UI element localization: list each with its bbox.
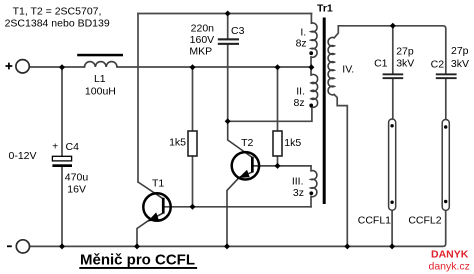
svg-text:16V: 16V [67,184,86,196]
wire: C1 bottom lead to CCFL1 [392,79,394,119]
svg-text:0-12V: 0-12V [9,150,37,162]
node: center tap [308,64,314,70]
svg-text:L1: L1 [94,73,106,85]
svg-text:3z: 3z [293,187,304,199]
wire: R1 top lead [192,67,194,131]
wire: winding I top lead [310,14,312,24]
node: top rail / C3 [225,11,231,17]
lamp CCFL1 [358,119,396,226]
svg-text:C3: C3 [231,25,245,37]
wire: R1 bottom lead [192,156,194,207]
svg-text:III.: III. [292,175,304,187]
wire: CCFL1 bottom lead [391,210,393,246]
svg-text:1k5: 1k5 [284,137,301,149]
svg-text:Měnič pro CCFL: Měnič pro CCFL [80,252,195,269]
title: Měnič pro CCFL [79,252,197,269]
transformer core [323,18,326,205]
capacitor C3 (220n 160V MKP) [189,22,244,57]
node: ground rail / C4 [59,243,65,249]
transistor T1 [137,177,171,246]
transistor T2 [227,121,259,246]
terminal - (negative input) [7,240,30,253]
svg-text:C2: C2 [431,59,445,71]
node: main wire / R2 [275,64,281,70]
wire: winding IV bottom lead to ground rail [334,95,347,247]
svg-text:CCFL1: CCFL1 [358,214,391,226]
wire: winding III bottom lead [310,197,312,207]
wire: C1 top lead [392,26,394,74]
svg-text:3kV: 3kV [396,57,414,69]
wire: R2 top lead [277,67,279,131]
capacitor C4 (electrolytic 470u 16V) [52,141,88,196]
inductor L1 [77,54,123,98]
wire: T1 base wire to winding III bottom [165,206,312,208]
svg-text:27p: 27p [396,46,414,58]
node: ground rail / CCFL1 [389,243,395,249]
winding I (8z) [296,23,317,57]
wire: winding IV top lead [334,26,338,38]
node: secondary rail / C1 [390,23,396,29]
node: C3 / T2 collector [225,118,231,124]
capacitor C2 27p 3kV [431,45,469,79]
wire: C4 bottom lead [61,167,63,246]
svg-text:DANYK: DANYK [431,249,469,261]
wire: T2 base wire to winding III top [254,165,312,167]
resistor R1 1k5 [169,131,197,156]
svg-text:Tr1: Tr1 [317,2,333,14]
svg-text:8z: 8z [296,37,307,49]
svg-text:160V: 160V [190,34,215,46]
svg-text:27p: 27p [451,45,469,57]
winding IV (secondary) [328,37,354,94]
resistor R2 1k5 [273,131,301,156]
capacitor C1 27p 3kV [374,46,414,79]
svg-text:220n: 220n [191,22,215,34]
svg-text:C4: C4 [66,141,80,153]
wire: winding III top lead [310,166,312,171]
svg-text:+: + [52,142,58,153]
svg-text:IV.: IV. [342,63,354,75]
node: ground rail / T2 emitter [224,243,230,249]
wire: node C3/T2 to winding II bottom [228,107,312,122]
wire: T1 collector vertical [137,14,139,183]
wire: R2 bottom lead [277,156,279,166]
wire: center tap vertical [310,57,312,75]
lamp CCFL2 [408,120,449,227]
wire: C2 bottom lead to CCFL2 [445,79,447,120]
winding II (8z) [294,74,318,108]
node: main wire / R1 [190,64,196,70]
winding III (3z) [292,171,317,199]
terminal + (positive input) [6,60,30,73]
svg-text:2SC1384 nebo BD139: 2SC1384 nebo BD139 [5,17,110,29]
svg-text:3kV: 3kV [451,58,469,70]
svg-text:danyk.cz: danyk.cz [429,260,470,272]
svg-text:100uH: 100uH [85,85,116,97]
svg-text:MKP: MKP [189,45,212,57]
wire: secondary top rail [338,26,446,74]
svg-text:T2: T2 [241,137,253,149]
node: T2 base / R2 [275,163,281,169]
wire: C4 top lead [61,67,63,156]
svg-text:1k5: 1k5 [169,136,186,148]
wire: C3 top lead [227,14,229,39]
node: main wire / C4 [59,64,65,70]
svg-text:T1, T2 = 2SC5707,: T1, T2 = 2SC5707, [13,5,102,17]
node: ground rail / secondary return [344,243,350,249]
node: ground rail / T1 emitter [134,243,140,249]
wire: top rail from T1 collector to winding I top [138,13,312,15]
wire: C3 bottom lead to T2 collector node [227,45,229,121]
node: T1 base / R1 [190,204,196,210]
svg-text:II.: II. [296,86,305,98]
svg-text:8z: 8z [294,97,305,109]
svg-text:470u: 470u [65,172,89,184]
svg-text:T1: T1 [152,177,164,189]
wire: main +V rail from plus terminal to L1 [30,66,85,68]
wire: bottom ground rail from minus terminal to CCFL2 corner [30,210,446,246]
svg-text:C1: C1 [374,57,388,69]
svg-text:CCFL2: CCFL2 [408,214,441,226]
junction dots (diamonds) [59,11,396,250]
wire: main +V rail from L1 to transformer center tap [117,66,312,68]
